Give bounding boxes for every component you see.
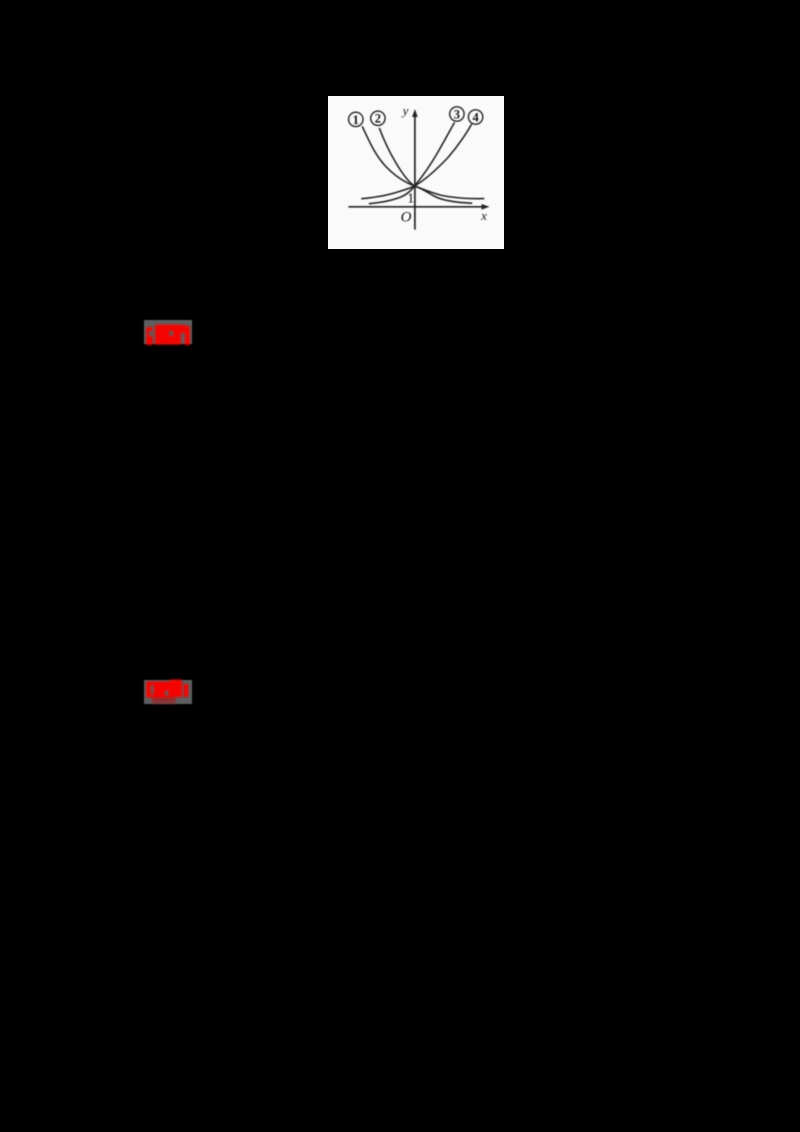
svg-text:x: x	[480, 208, 487, 223]
svg-text:O: O	[401, 209, 412, 225]
svg-text:2: 2	[375, 111, 381, 125]
svg-text:1: 1	[407, 191, 414, 206]
svg-text:4: 4	[472, 110, 479, 124]
svg-text:3: 3	[454, 107, 460, 121]
svg-text:y: y	[401, 102, 409, 117]
svg-text:1: 1	[353, 112, 359, 126]
